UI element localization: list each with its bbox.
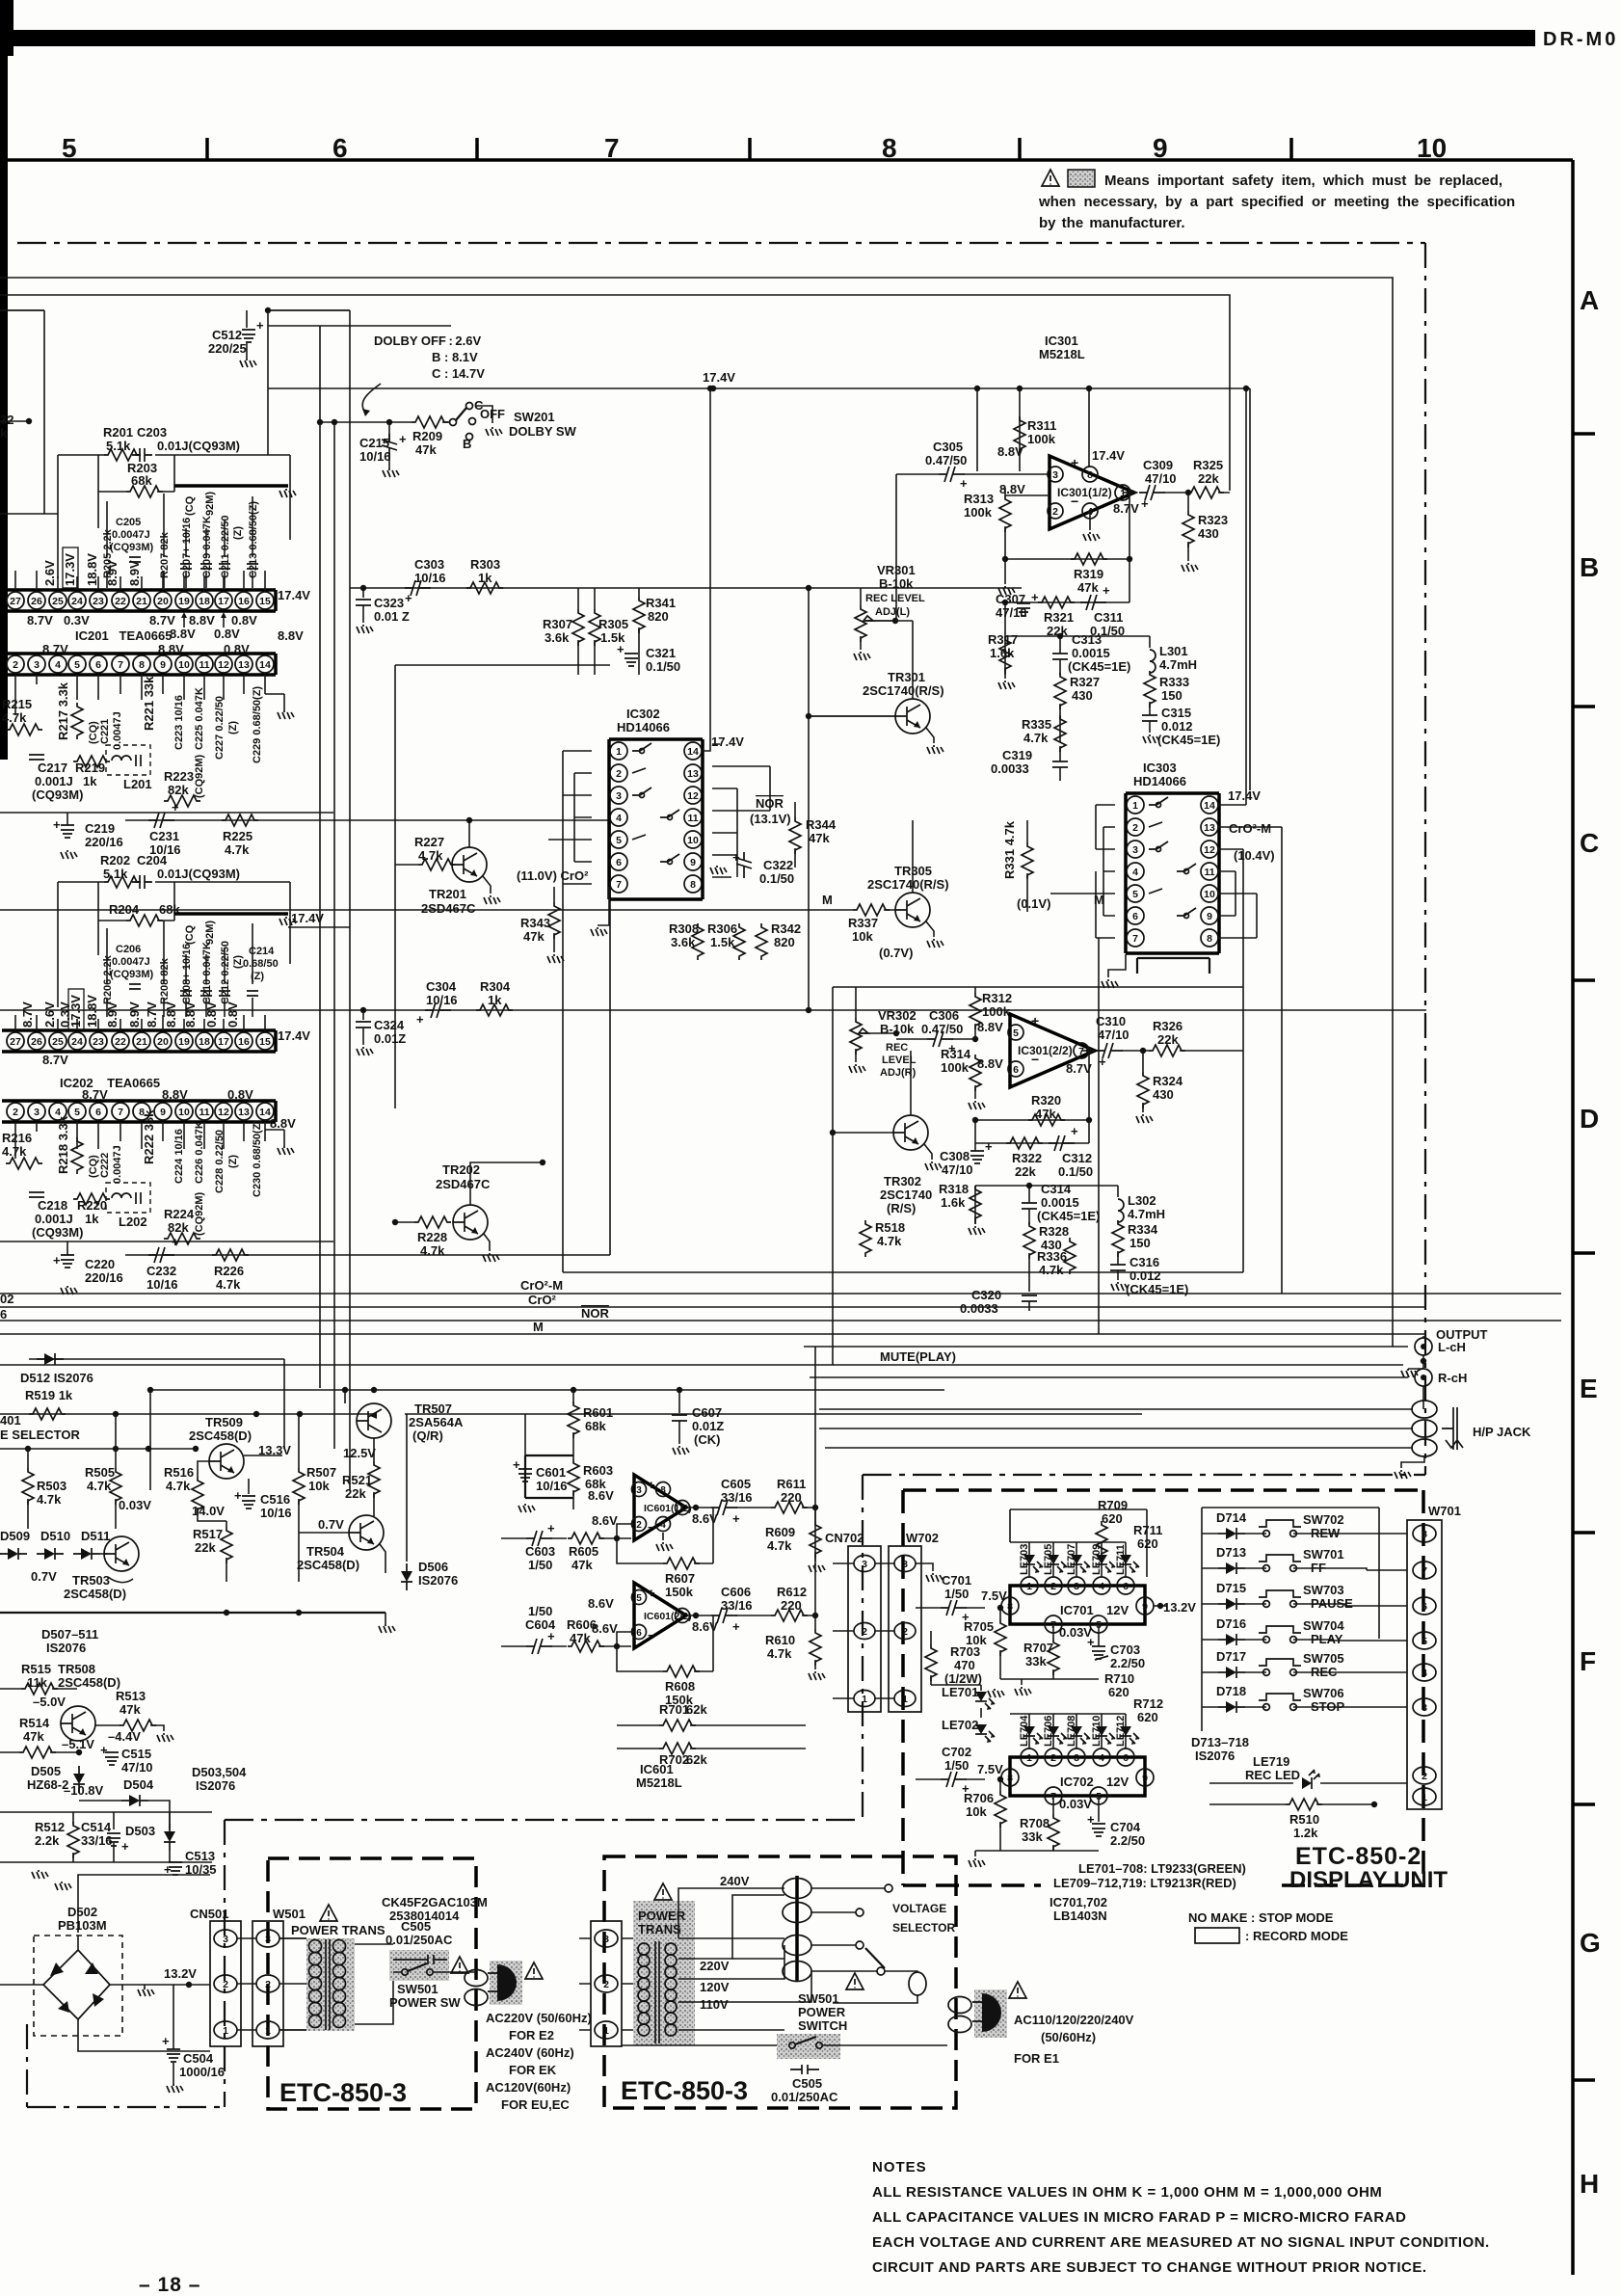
svg-text:+: + bbox=[162, 2034, 170, 2048]
svg-text:Means important safety item, w: Means important safety item, which must … bbox=[1104, 173, 1502, 189]
switch SW706 STOP bbox=[1259, 1694, 1301, 1710]
svg-text:C603: C603 bbox=[525, 1544, 555, 1559]
frame top line bbox=[0, 158, 1573, 162]
svg-text:R706: R706 bbox=[964, 1791, 994, 1805]
svg-text:6: 6 bbox=[1132, 911, 1138, 922]
junction 17.4V bbox=[710, 386, 716, 391]
svg-text:92M): 92M) bbox=[204, 492, 216, 516]
svg-text:IC702: IC702 bbox=[1060, 1775, 1094, 1789]
svg-text:1: 1 bbox=[862, 1694, 867, 1705]
resistor R226 4.7k bbox=[212, 1249, 249, 1261]
wires switches to W701 bbox=[1293, 1534, 1407, 1707]
resistor R610 4.7k bbox=[814, 1615, 816, 1629]
svg-text:22k: 22k bbox=[1015, 1164, 1036, 1179]
svg-text:4.7k: 4.7k bbox=[767, 1538, 792, 1553]
svg-text:D717: D717 bbox=[1216, 1649, 1246, 1664]
wire output R line bbox=[810, 1376, 1408, 1378]
LED LE703 bbox=[1023, 1555, 1043, 1573]
wire lower filter box bbox=[1005, 636, 1150, 675]
capacitor C604 1/50 bbox=[526, 1639, 552, 1654]
switch SW705 REC bbox=[1259, 1659, 1301, 1675]
svg-text:2SD467C: 2SD467C bbox=[421, 901, 476, 916]
svg-text:REC: REC bbox=[886, 1042, 908, 1054]
svg-text:11: 11 bbox=[199, 659, 209, 671]
wire lower filter box 2 bbox=[975, 1186, 1118, 1224]
svg-text:8.7V: 8.7V bbox=[42, 642, 68, 656]
svg-text:3: 3 bbox=[1132, 844, 1138, 856]
transformer T2 windings POWER TRANS bbox=[633, 1901, 695, 2045]
svg-text:LE702: LE702 bbox=[942, 1718, 978, 1732]
capacitor C703 2.2/50 bbox=[1092, 1646, 1105, 1659]
wire 17.4V bus top bbox=[0, 309, 350, 311]
wire lower signal box bbox=[563, 1271, 1243, 1273]
svg-text:R222 33k: R222 33k bbox=[142, 1109, 156, 1164]
capacitor C515 47/10 bbox=[105, 1752, 119, 1765]
ground below202 bbox=[278, 1146, 294, 1155]
svg-text:C213 0.68/50(Z): C213 0.68/50(Z) bbox=[248, 501, 259, 578]
svg-text:13.2V: 13.2V bbox=[164, 1966, 197, 1981]
svg-text:R333: R333 bbox=[1159, 675, 1189, 689]
transistor TR202 2SD467C bbox=[453, 1205, 488, 1240]
svg-text:4.7k: 4.7k bbox=[1023, 731, 1049, 745]
svg-text:+: + bbox=[405, 591, 412, 605]
svg-text:2: 2 bbox=[862, 1626, 867, 1638]
svg-text:6: 6 bbox=[636, 1628, 642, 1639]
svg-text:R605: R605 bbox=[569, 1544, 598, 1559]
svg-text:R513: R513 bbox=[116, 1689, 146, 1703]
svg-text:33/16: 33/16 bbox=[721, 1490, 753, 1505]
resistor R521 22k bbox=[373, 1438, 375, 1461]
svg-text:10/16: 10/16 bbox=[149, 842, 181, 857]
resistor R336 4.7k bbox=[1028, 1253, 1030, 1292]
svg-text:16: 16 bbox=[238, 1036, 250, 1048]
svg-text:2: 2 bbox=[1050, 1752, 1056, 1764]
capacitor C304 10/16 bbox=[425, 1002, 451, 1018]
svg-text:(0.1V): (0.1V) bbox=[1017, 896, 1050, 911]
svg-text:R311: R311 bbox=[1027, 418, 1056, 433]
svg-text:4: 4 bbox=[1132, 867, 1138, 878]
svg-text:R322: R322 bbox=[1012, 1151, 1042, 1165]
svg-text:0.3V: 0.3V bbox=[64, 613, 90, 627]
svg-text:4.7k: 4.7k bbox=[2, 710, 27, 725]
resistor R320 47k bbox=[1028, 1114, 1065, 1126]
svg-text:R343: R343 bbox=[520, 916, 550, 930]
svg-text:ALL RESISTANCE VALUES IN OHM K: ALL RESISTANCE VALUES IN OHM K = 1,000 O… bbox=[872, 2184, 1382, 2201]
svg-text:+: + bbox=[172, 800, 179, 814]
resistor R607 150k feedback bbox=[617, 1508, 713, 1563]
svg-text:HD14066: HD14066 bbox=[617, 720, 670, 734]
wire hp jack lines bbox=[819, 1409, 1413, 1448]
ground C215 bbox=[383, 468, 399, 477]
svg-text:2SC1740(R/S): 2SC1740(R/S) bbox=[867, 877, 949, 892]
svg-text:0.7V: 0.7V bbox=[318, 1517, 344, 1532]
inductor L301 4.7mH bbox=[1150, 650, 1156, 673]
svg-text:D714: D714 bbox=[1216, 1510, 1247, 1525]
resistor R505 4.7k bbox=[115, 1414, 117, 1468]
svg-text:17.4V: 17.4V bbox=[1228, 788, 1261, 803]
svg-text:9: 9 bbox=[160, 659, 166, 671]
IC IC302 HD14066 bbox=[609, 739, 703, 899]
svg-text:R515: R515 bbox=[21, 1662, 51, 1676]
warning triangle sw501 bbox=[451, 1957, 468, 1973]
svg-text:4.7k: 4.7k bbox=[877, 1234, 902, 1248]
svg-text:1/50: 1/50 bbox=[528, 1604, 552, 1618]
LED LE706 bbox=[1048, 1726, 1067, 1745]
svg-text:5: 5 bbox=[74, 1107, 80, 1118]
svg-text:D715: D715 bbox=[1216, 1581, 1246, 1595]
svg-text:2: 2 bbox=[1052, 506, 1058, 518]
svg-text:D505: D505 bbox=[31, 1764, 61, 1778]
svg-text:DOLBY OFF : 2.6V: DOLBY OFF : 2.6V bbox=[374, 334, 481, 348]
svg-text:2: 2 bbox=[616, 768, 622, 780]
svg-text:4.7k: 4.7k bbox=[87, 1479, 112, 1493]
svg-text:C227 0.22/50: C227 0.22/50 bbox=[214, 696, 226, 760]
svg-text:R518: R518 bbox=[875, 1220, 905, 1235]
svg-text:C310: C310 bbox=[1096, 1014, 1126, 1028]
ground SW201 bbox=[475, 406, 492, 423]
svg-text:REC LED: REC LED bbox=[1245, 1768, 1300, 1782]
svg-text:R609: R609 bbox=[765, 1525, 795, 1539]
svg-text:430: 430 bbox=[1072, 688, 1093, 703]
svg-text:21: 21 bbox=[136, 596, 147, 607]
wire R322 C312 row bbox=[975, 1120, 1089, 1143]
svg-text:8.7V: 8.7V bbox=[149, 613, 175, 627]
switch SW501 power sw block bbox=[389, 1950, 449, 1981]
ground bridge bbox=[138, 1988, 154, 1996]
svg-text:+: + bbox=[732, 1511, 740, 1526]
wire cluster frame 201 bbox=[58, 455, 290, 578]
svg-text:13: 13 bbox=[1204, 822, 1215, 834]
svg-text:1k: 1k bbox=[83, 774, 97, 788]
svg-text:C: C bbox=[1580, 828, 1599, 858]
svg-text:−: − bbox=[1031, 1052, 1039, 1067]
svg-text:2: 2 bbox=[1132, 822, 1138, 834]
svg-text:C315: C315 bbox=[1161, 706, 1191, 720]
svg-text:R603: R603 bbox=[583, 1463, 613, 1478]
svg-text:(CQ: (CQ bbox=[184, 924, 196, 945]
wire bus CrO2 bbox=[0, 1306, 1426, 1308]
vertical wire x633 bbox=[609, 820, 611, 1255]
resistor R319 47k bbox=[1071, 553, 1107, 565]
svg-text:+: + bbox=[121, 1839, 129, 1854]
svg-text:23: 23 bbox=[93, 596, 104, 607]
wire feedback loop bbox=[1005, 493, 1129, 559]
svg-text:LE701–708: LT9233(GREEN): LE701–708: LT9233(GREEN) bbox=[1078, 1861, 1246, 1876]
svg-text:FOR E1: FOR E1 bbox=[1014, 2051, 1059, 2066]
svg-text:LE705: LE705 bbox=[1043, 1544, 1054, 1575]
svg-text:620: 620 bbox=[1108, 1685, 1129, 1699]
svg-text:4.7k: 4.7k bbox=[225, 842, 250, 857]
resistor R341 820 bbox=[633, 597, 645, 633]
svg-text:+: + bbox=[1141, 496, 1149, 511]
LED LE708 bbox=[1071, 1726, 1090, 1745]
resistor R328 430 bbox=[1023, 1222, 1035, 1259]
plug P1 body bbox=[490, 1961, 522, 2005]
svg-text:+: + bbox=[732, 1619, 740, 1634]
wire x1296 vertical IC301 box bbox=[1249, 388, 1251, 790]
wire bus CrO2-M bbox=[0, 1293, 1561, 1295]
heavy bus bar 201 bbox=[174, 484, 288, 488]
svg-text:L-cH: L-cH bbox=[1438, 1340, 1466, 1354]
svg-text:4.7k: 4.7k bbox=[2, 1144, 27, 1159]
svg-text:8.9V: 8.9V bbox=[127, 560, 142, 586]
svg-text:26: 26 bbox=[31, 596, 42, 607]
svg-text:L201: L201 bbox=[123, 777, 152, 791]
diode D512 IS2076 bbox=[37, 1353, 64, 1365]
svg-text:R612: R612 bbox=[777, 1585, 807, 1599]
svg-text:(CQ92M): (CQ92M) bbox=[194, 754, 205, 798]
svg-text:MUTE(PLAY): MUTE(PLAY) bbox=[880, 1349, 956, 1364]
wire output verticals bbox=[1422, 1336, 1424, 1409]
ground cluster202 bbox=[279, 917, 296, 925]
svg-text:2: 2 bbox=[223, 1979, 228, 1990]
svg-text:5: 5 bbox=[636, 1593, 642, 1604]
svg-text:(CQ93M): (CQ93M) bbox=[32, 788, 83, 802]
svg-text:8.7V: 8.7V bbox=[20, 1001, 35, 1028]
svg-text:4.7k: 4.7k bbox=[1039, 1263, 1064, 1277]
svg-text:0.03V: 0.03V bbox=[1059, 1797, 1092, 1811]
svg-text:0.1/50: 0.1/50 bbox=[1058, 1164, 1093, 1179]
svg-text:68k: 68k bbox=[585, 1419, 606, 1433]
ground R313 bbox=[998, 586, 1015, 595]
svg-text:(50/60Hz): (50/60Hz) bbox=[1041, 2030, 1096, 2044]
svg-text:C222: C222 bbox=[99, 1153, 111, 1178]
svg-text:3: 3 bbox=[616, 790, 622, 802]
svg-text:C203: C203 bbox=[137, 425, 167, 440]
svg-text:25: 25 bbox=[52, 1036, 64, 1048]
switch SW201 dolby bbox=[442, 421, 450, 423]
svg-text:8.8V: 8.8V bbox=[270, 1116, 296, 1131]
capacitor C217 0.001J (CQ93M) bbox=[29, 755, 44, 760]
svg-text:R331 4.7k: R331 4.7k bbox=[1002, 820, 1017, 879]
warning plug2 bbox=[1009, 1982, 1026, 1998]
svg-text:C512: C512 bbox=[212, 328, 242, 342]
wire ic601 outputs to jacks bbox=[814, 1347, 816, 1615]
svg-text:13.3V: 13.3V bbox=[258, 1443, 291, 1457]
svg-text:100k: 100k bbox=[982, 1004, 1011, 1019]
wire bus M bbox=[0, 1333, 1426, 1335]
svg-text:C704: C704 bbox=[1110, 1820, 1141, 1834]
wire hline above vr302 bbox=[833, 986, 1243, 988]
svg-text:1: 1 bbox=[1026, 1752, 1032, 1764]
svg-text:14.0V: 14.0V bbox=[192, 1504, 225, 1518]
svg-text:R319: R319 bbox=[1074, 567, 1103, 581]
svg-text:14: 14 bbox=[687, 746, 699, 758]
svg-text:0.47/50: 0.47/50 bbox=[925, 453, 967, 467]
svg-text:+: + bbox=[1103, 583, 1110, 598]
svg-text:SW701: SW701 bbox=[1303, 1547, 1344, 1562]
transistor TR305 2SC1740(R/S) bbox=[895, 893, 930, 927]
svg-text:k: k bbox=[0, 426, 8, 441]
svg-text:22k: 22k bbox=[1198, 471, 1219, 486]
resistor R327 430 bbox=[1054, 673, 1066, 709]
wire opamp2 out bbox=[1081, 1050, 1095, 1052]
svg-text:4.7k: 4.7k bbox=[767, 1646, 792, 1661]
capacitor C215 10/16 bbox=[388, 422, 390, 441]
svg-text:10/16: 10/16 bbox=[260, 1506, 292, 1520]
svg-text:8: 8 bbox=[1087, 469, 1093, 481]
svg-text:8.8V: 8.8V bbox=[997, 444, 1023, 459]
ground C512 bbox=[240, 359, 256, 367]
capacitor C303 10/16 bbox=[405, 580, 431, 596]
svg-text:8.6V: 8.6V bbox=[588, 1488, 614, 1503]
wire IC302 right verticals bbox=[737, 766, 770, 877]
svg-text:SW501: SW501 bbox=[397, 1982, 438, 1996]
solid nested line A bbox=[0, 278, 1393, 1347]
wire IC302 left pin stubs bbox=[548, 751, 592, 884]
svg-text:C319: C319 bbox=[1002, 748, 1032, 762]
svg-text:2: 2 bbox=[902, 1626, 908, 1638]
svg-text:13.2V: 13.2V bbox=[1163, 1600, 1196, 1615]
resistor R701 62k bbox=[659, 1720, 696, 1731]
svg-text:R703: R703 bbox=[950, 1644, 980, 1659]
svg-text:150k: 150k bbox=[665, 1585, 694, 1599]
svg-text:LE708: LE708 bbox=[1066, 1716, 1077, 1747]
leads below201 bbox=[15, 675, 265, 715]
svg-text:D503: D503 bbox=[125, 1824, 155, 1838]
svg-text:–10.8V: –10.8V bbox=[64, 1783, 104, 1798]
svg-text:6: 6 bbox=[1422, 1601, 1427, 1613]
resistor R517 22k bbox=[226, 1521, 227, 1527]
ground ic302 bottom bbox=[598, 887, 609, 925]
svg-text:LE719: LE719 bbox=[1253, 1754, 1289, 1769]
svg-text:2: 2 bbox=[636, 1520, 642, 1531]
svg-text:620: 620 bbox=[1137, 1710, 1158, 1724]
svg-text:REC LEVEL: REC LEVEL bbox=[865, 593, 925, 604]
svg-text:TR201: TR201 bbox=[429, 887, 466, 901]
svg-text:(Z): (Z) bbox=[227, 1155, 239, 1168]
svg-text:22: 22 bbox=[115, 596, 126, 607]
dash-dot top border bbox=[17, 242, 1425, 244]
svg-text:2SC458(D): 2SC458(D) bbox=[297, 1558, 359, 1572]
svg-text:2SC458(D): 2SC458(D) bbox=[189, 1428, 252, 1443]
svg-text:–5.1V: –5.1V bbox=[62, 1737, 94, 1751]
svg-text:7: 7 bbox=[616, 879, 622, 891]
svg-text:3: 3 bbox=[265, 1934, 271, 1945]
svg-text:47k: 47k bbox=[1035, 1107, 1056, 1121]
svg-text:FOR EU,EC: FOR EU,EC bbox=[501, 2097, 570, 2112]
svg-text:NO MAKE : STOP MODE: NO MAKE : STOP MODE bbox=[1188, 1910, 1334, 1925]
svg-text:R610: R610 bbox=[765, 1633, 795, 1647]
svg-text:SWITCH: SWITCH bbox=[798, 2018, 847, 2033]
svg-text:VR302: VR302 bbox=[878, 1008, 917, 1023]
svg-text:A: A bbox=[1580, 285, 1599, 315]
svg-text:0.1/50: 0.1/50 bbox=[759, 871, 794, 886]
svg-text:14: 14 bbox=[259, 659, 271, 671]
resistor R603 68k bbox=[568, 1459, 579, 1496]
svg-text:6: 6 bbox=[95, 1107, 101, 1118]
svg-text:R220: R220 bbox=[77, 1198, 107, 1213]
svg-text:D512 IS2076: D512 IS2076 bbox=[20, 1371, 93, 1385]
capacitor C232 10/16 bbox=[148, 1247, 174, 1263]
op-amp IC601(1/2) bbox=[634, 1475, 686, 1540]
wire IC303 pin13 CrO2-M bbox=[1218, 827, 1282, 1294]
svg-text:CrO²-M: CrO²-M bbox=[520, 1278, 563, 1293]
svg-text:D716: D716 bbox=[1216, 1616, 1246, 1631]
svg-text:D504: D504 bbox=[123, 1777, 154, 1792]
svg-text:17.4V: 17.4V bbox=[703, 370, 735, 385]
svg-text:17.3V: 17.3V bbox=[68, 995, 83, 1028]
warning triangle trans1 bbox=[320, 1905, 337, 1921]
svg-text:R227: R227 bbox=[414, 835, 444, 849]
svg-text:47k: 47k bbox=[415, 442, 437, 457]
svg-text:G: G bbox=[1580, 1928, 1601, 1958]
svg-text:47k: 47k bbox=[571, 1558, 593, 1572]
svg-text:0.01J(CQ93M): 0.01J(CQ93M) bbox=[157, 867, 240, 881]
svg-text:(Q/R): (Q/R) bbox=[412, 1428, 443, 1443]
svg-text:D510: D510 bbox=[40, 1529, 70, 1543]
svg-text:33k: 33k bbox=[1022, 1829, 1043, 1844]
svg-text:0.0047J: 0.0047J bbox=[112, 711, 123, 750]
svg-text:18.8V: 18.8V bbox=[85, 995, 99, 1028]
svg-text:B: B bbox=[1580, 552, 1599, 582]
svg-text:1000/16: 1000/16 bbox=[179, 2065, 225, 2079]
vertical wire x278 bbox=[267, 310, 269, 455]
svg-text:0.01/250AC: 0.01/250AC bbox=[771, 2090, 838, 2104]
svg-text:7.5V: 7.5V bbox=[977, 1762, 1003, 1776]
resistor R612 220 bbox=[771, 1610, 808, 1621]
svg-text:8.6V: 8.6V bbox=[692, 1619, 718, 1634]
svg-text:R217 3.3k: R217 3.3k bbox=[56, 681, 70, 740]
wire dolby row bbox=[320, 421, 412, 423]
svg-text:4.7mH: 4.7mH bbox=[1128, 1207, 1165, 1221]
svg-text:8: 8 bbox=[660, 1485, 666, 1496]
svg-text:2: 2 bbox=[1422, 1771, 1427, 1782]
svg-text:R306: R306 bbox=[707, 921, 737, 936]
switch SW703 PAUSE bbox=[1259, 1590, 1301, 1607]
svg-text:+: + bbox=[985, 1139, 993, 1154]
svg-text:R344: R344 bbox=[806, 817, 837, 832]
svg-text:EACH VOLTAGE AND CURRENT ARE M: EACH VOLTAGE AND CURRENT ARE MEASURED AT… bbox=[872, 2234, 1490, 2251]
wire R303 line bbox=[350, 587, 1022, 589]
svg-text:10: 10 bbox=[687, 835, 699, 846]
svg-text:13: 13 bbox=[687, 768, 699, 780]
heavy bus bar 202 bbox=[174, 912, 288, 916]
svg-text:R606: R606 bbox=[567, 1617, 597, 1632]
svg-text:IC601: IC601 bbox=[640, 1762, 674, 1776]
svg-text:100k: 100k bbox=[964, 505, 993, 520]
IC IC303 HD14066 bbox=[1126, 793, 1219, 953]
svg-text:VOLTAGE: VOLTAGE bbox=[892, 1902, 946, 1915]
svg-text:21: 21 bbox=[136, 1036, 147, 1048]
wire IC302 pin14 to 17.4V rail bbox=[709, 388, 711, 722]
svg-text:8.6V: 8.6V bbox=[592, 1513, 618, 1528]
svg-text:2.2/50: 2.2/50 bbox=[1110, 1833, 1145, 1848]
svg-text:2538014014: 2538014014 bbox=[389, 1909, 460, 1923]
svg-text:−: − bbox=[1071, 494, 1078, 509]
svg-text:0.0033: 0.0033 bbox=[991, 761, 1029, 776]
svg-text:LE703: LE703 bbox=[1019, 1544, 1030, 1575]
svg-text:1/50: 1/50 bbox=[944, 1587, 969, 1601]
warning plug1 bbox=[525, 1962, 543, 1979]
svg-text:68k: 68k bbox=[131, 473, 152, 488]
svg-text:2SD467C: 2SD467C bbox=[436, 1177, 491, 1191]
svg-text:C607: C607 bbox=[692, 1405, 722, 1420]
svg-text:8: 8 bbox=[1422, 1529, 1427, 1540]
wire C601 supply vertical bbox=[524, 1414, 526, 1455]
capacitor C321 0.1/50 bbox=[624, 654, 638, 666]
svg-text:POWER TRANS: POWER TRANS bbox=[291, 1923, 385, 1937]
capacitor C313 0.0015 (CK45=1E) bbox=[1052, 654, 1068, 659]
ground cluster201 bbox=[279, 489, 296, 497]
headphone jack ovals bbox=[1412, 1401, 1437, 1418]
svg-text:22k: 22k bbox=[195, 1540, 216, 1555]
svg-text:IC201 TEA0665: IC201 TEA0665 bbox=[75, 628, 172, 643]
wire IC303 pin12 stub bbox=[1218, 849, 1243, 1272]
svg-text:1: 1 bbox=[603, 2025, 609, 2037]
svg-text:2SC1740(R/S): 2SC1740(R/S) bbox=[863, 683, 944, 698]
capacitor C231 10/16 bbox=[148, 813, 174, 828]
